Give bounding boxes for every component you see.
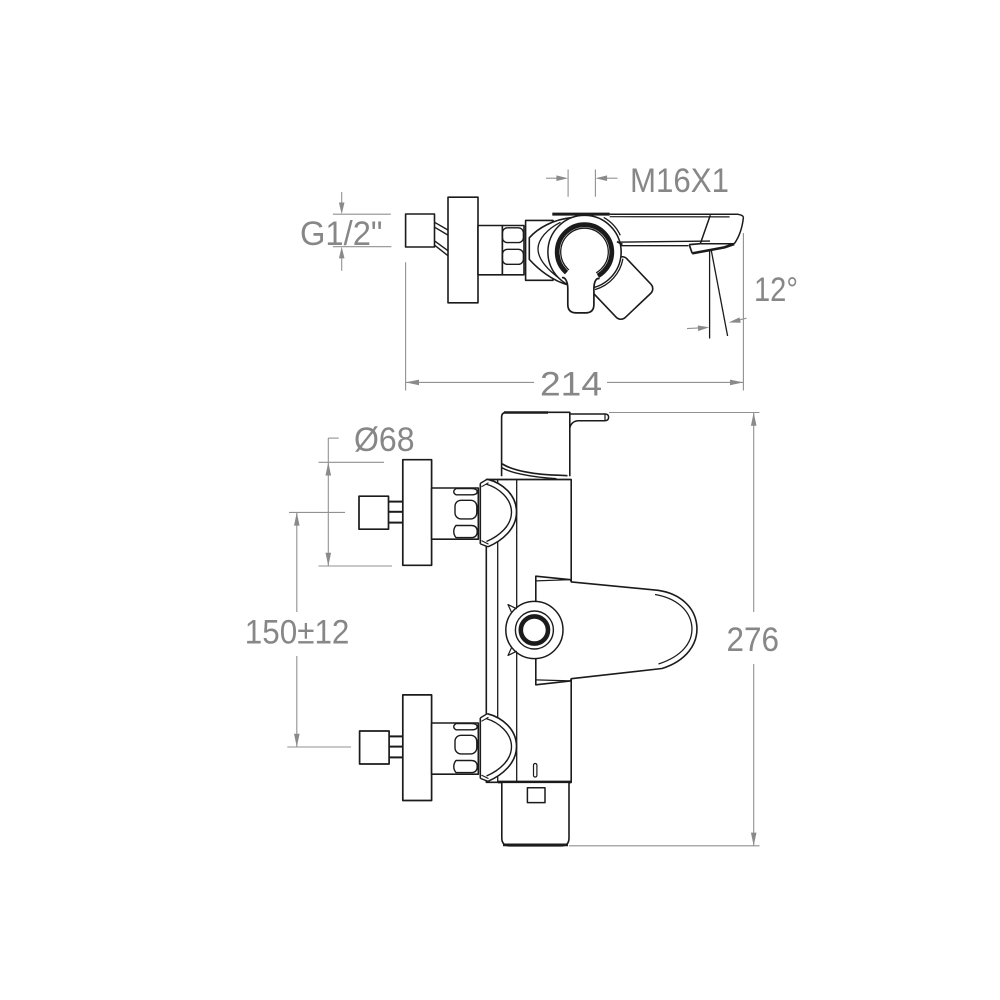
spout tip right edge (top view) <box>734 217 743 243</box>
angle reference vertical line <box>709 250 711 339</box>
dimension O68 top extension <box>319 461 385 463</box>
lower inlet escutcheon <box>403 695 432 801</box>
spout mounting bar (top view) <box>552 213 609 216</box>
dimension 12 deg left arrow <box>687 327 699 330</box>
spout bottom lines (top view) <box>615 241 710 246</box>
skirt curve upper <box>502 464 567 476</box>
dimension G1/2" upper line <box>333 213 391 215</box>
upper inlet pipe block <box>359 496 389 529</box>
upper inlet bell <box>480 479 516 547</box>
lower inlet nipple lines <box>389 736 403 757</box>
dimension O68 bottom extension <box>319 565 393 567</box>
dimension 12 deg right arrow <box>738 318 747 320</box>
barrel inner vertical line 2 <box>516 480 518 783</box>
svg-text:150±12: 150±12 <box>245 613 350 651</box>
cartridge inner circle (top view) <box>561 228 609 276</box>
cartridge collar arc (top view) <box>604 217 621 235</box>
main barrel body (front/side view) <box>486 480 571 783</box>
cartridge outer circle (top view) <box>548 215 621 288</box>
foot square detail <box>527 788 545 803</box>
boss ear notch top <box>508 605 517 613</box>
diverter knob chamfer arc (top view) <box>595 259 623 290</box>
dimension 150+-12 vertical line <box>296 512 298 612</box>
top cap body (front view) <box>502 412 570 476</box>
skirt curve lower <box>502 468 557 479</box>
upper inlet hex nut <box>432 488 479 539</box>
bottom foot (front view) <box>502 782 569 846</box>
dimension 276 vertical line <box>753 413 755 613</box>
dimension 276 bottom extension <box>569 845 760 847</box>
union cylinder (top view) <box>478 226 502 275</box>
valve body block (top view) <box>526 220 553 280</box>
barrel top edge <box>486 479 571 481</box>
spout tip face bottom edge (top view) <box>700 243 734 245</box>
lower inlet bell <box>480 714 516 782</box>
dimension 276 top extension <box>609 412 760 414</box>
dimension M16X1 right arrow <box>607 177 618 179</box>
wall escutcheon plate (top view) <box>448 197 478 303</box>
dimension M16X1 left extension <box>567 170 569 197</box>
lower inlet pipe block <box>360 731 390 764</box>
dimension M16X1 right extension <box>594 170 596 197</box>
barrel inner vertical line 1 <box>497 480 499 783</box>
dimension G1/2" lower line <box>333 246 392 248</box>
dimension 214 right extension <box>742 233 744 391</box>
diverter knob (top view) <box>588 254 656 322</box>
lower inlet hex nut <box>432 723 479 774</box>
spout top inner edge (top view) <box>610 216 730 218</box>
boss concentric circles (front view) <box>506 601 563 658</box>
barrel bottom edge thick <box>498 781 571 784</box>
svg-text:12°: 12° <box>754 271 798 309</box>
cartridge housing egg (top view) <box>529 215 621 288</box>
dimension O68 vertical line <box>327 438 329 566</box>
spout tip cut face left edge (top view) <box>700 215 710 243</box>
spout top edge (top view) <box>610 214 744 217</box>
parting tick above foot <box>534 764 537 778</box>
angle reference slanted line <box>711 251 727 337</box>
spout under lip (top view) <box>689 244 700 254</box>
eccentric union pipes (top view) <box>435 222 449 256</box>
spout root fillet (top view) <box>617 242 623 245</box>
dimension 214 line <box>406 381 534 383</box>
wall nipple block (top view) <box>406 214 435 247</box>
svg-text:Ø68: Ø68 <box>354 421 415 459</box>
dimension O68 leader tick <box>328 437 338 439</box>
cartridge housing inner cone line (top view) <box>538 222 561 279</box>
upper inlet nipple lines <box>389 502 403 523</box>
top cap thick edge segment <box>504 411 548 413</box>
svg-text:276: 276 <box>727 621 780 659</box>
dimension 150+-12 top extension <box>289 511 345 513</box>
cartridge thick ring (top view) <box>557 225 612 280</box>
dimension 214 left extension <box>405 262 407 390</box>
svg-text:214: 214 <box>540 366 602 404</box>
handle lever (top view) <box>562 252 600 313</box>
svg-text:M16X1: M16X1 <box>630 162 729 200</box>
foot bottom thick edge <box>503 844 568 847</box>
boss ear notch bottom <box>508 648 517 656</box>
dimension G1/2" lower arrow <box>341 258 343 271</box>
upper inlet escutcheon <box>403 460 432 566</box>
svg-text:G1/2": G1/2" <box>300 215 383 253</box>
dimension G1/2" upper arrow <box>341 192 343 203</box>
dimension 150+-12 bottom extension <box>287 746 351 748</box>
handle (side view, D-shape) <box>536 576 697 685</box>
hex nut (top view) <box>502 226 524 275</box>
top handle tab (front view) <box>570 414 609 428</box>
dimension M16X1 left arrow <box>546 177 557 179</box>
